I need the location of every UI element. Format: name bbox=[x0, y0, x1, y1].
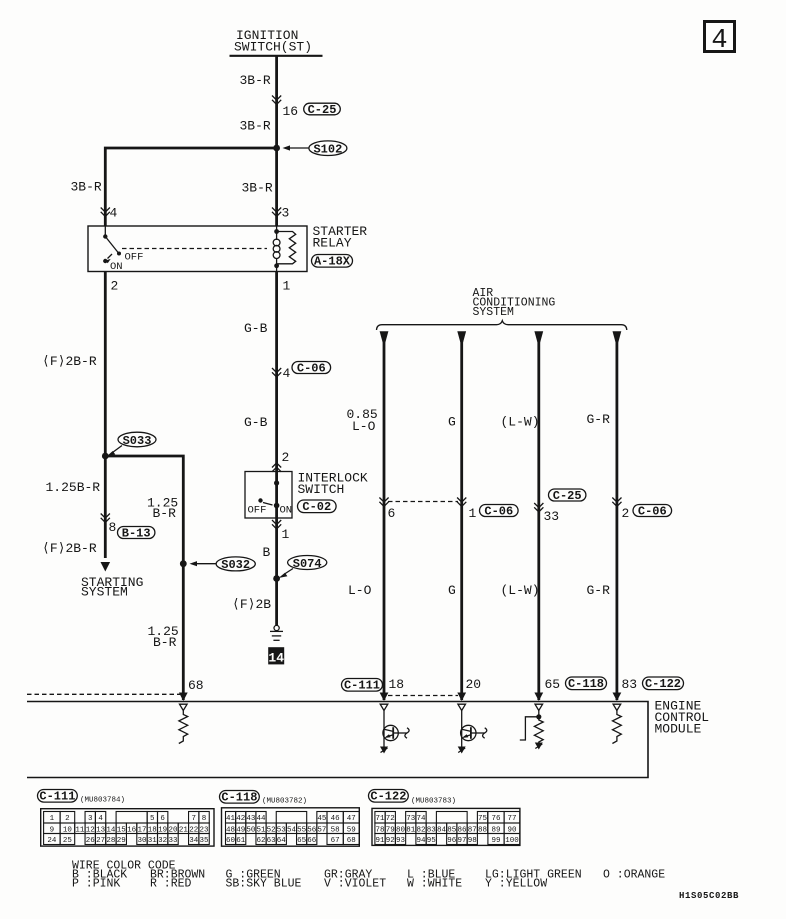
svg-text:25: 25 bbox=[63, 837, 73, 845]
connector C-122 title bbox=[369, 790, 457, 806]
svg-text:MODULE: MODULE bbox=[655, 722, 702, 737]
svg-text:71: 71 bbox=[376, 815, 386, 823]
svg-text:B-13: B-13 bbox=[122, 526, 151, 540]
svg-text:97: 97 bbox=[458, 837, 467, 845]
svg-text:C-02: C-02 bbox=[302, 500, 331, 514]
AC wire 4 bbox=[616, 336, 619, 700]
svg-text:S032: S032 bbox=[221, 558, 250, 572]
ECM transistor Q1 bbox=[380, 711, 409, 754]
connector C-06 bbox=[633, 504, 672, 518]
relay ON contact bbox=[103, 254, 112, 263]
svg-text:5: 5 bbox=[150, 815, 155, 823]
svg-text:65: 65 bbox=[545, 677, 561, 692]
connector C-25 bbox=[304, 103, 341, 117]
svg-text:S033: S033 bbox=[123, 434, 152, 448]
label 1.25 B-R bbox=[147, 496, 178, 522]
svg-text:L-O: L-O bbox=[348, 583, 372, 598]
relay switch contact top bbox=[103, 226, 107, 239]
svg-text:11: 11 bbox=[75, 827, 85, 835]
wire relay pin2 down to S033 bbox=[104, 272, 107, 457]
ECM pin 65 node bbox=[520, 711, 542, 741]
svg-text:C-06: C-06 bbox=[484, 504, 513, 518]
svg-text:28: 28 bbox=[106, 837, 115, 845]
svg-text:61: 61 bbox=[236, 837, 246, 845]
svg-text:(MU803784): (MU803784) bbox=[80, 797, 125, 805]
svg-text:(L-W): (L-W) bbox=[501, 583, 540, 598]
label INTERLOCK SWITCH bbox=[298, 471, 368, 498]
svg-text:18: 18 bbox=[389, 677, 405, 692]
connector C-118 title bbox=[220, 791, 308, 806]
svg-text:S074: S074 bbox=[293, 557, 322, 571]
svg-text:RELAY: RELAY bbox=[313, 236, 352, 251]
svg-text:16: 16 bbox=[283, 104, 299, 119]
svg-text:54: 54 bbox=[287, 827, 297, 835]
chevron into relay pin3 bbox=[272, 208, 281, 217]
svg-text:OFF: OFF bbox=[248, 505, 267, 517]
svg-text:60: 60 bbox=[226, 837, 236, 845]
svg-text:84: 84 bbox=[437, 827, 447, 835]
svg-text:45: 45 bbox=[317, 815, 327, 823]
svg-text:V :VIOLET: V :VIOLET bbox=[324, 878, 386, 891]
connector A-18X bbox=[312, 255, 353, 269]
svg-text:24: 24 bbox=[47, 837, 57, 845]
svg-text:8: 8 bbox=[202, 815, 207, 823]
svg-text:26: 26 bbox=[86, 837, 96, 845]
node AIR CONDITIONING SYSTEM bbox=[473, 287, 556, 319]
interlock ON contact bbox=[274, 503, 280, 509]
splice S074 bbox=[279, 556, 327, 579]
wire relay pin1 down to C-06 bbox=[275, 272, 278, 472]
svg-text:33: 33 bbox=[544, 509, 560, 524]
svg-text:16: 16 bbox=[127, 827, 137, 835]
svg-text:G: G bbox=[448, 415, 456, 430]
svg-text:3B-R: 3B-R bbox=[71, 180, 102, 195]
chevron into relay pin4 bbox=[101, 208, 110, 217]
svg-text:4: 4 bbox=[711, 26, 727, 56]
svg-text:46: 46 bbox=[331, 815, 341, 823]
svg-text:W :WHITE: W :WHITE bbox=[407, 878, 462, 891]
relay switch lever bbox=[105, 237, 121, 256]
wire arrowhead pin 83 bbox=[613, 693, 622, 702]
ECM pin 65 input triangle bbox=[535, 704, 543, 710]
svg-text:50: 50 bbox=[246, 827, 256, 835]
svg-text:47: 47 bbox=[347, 815, 356, 823]
svg-text:B: B bbox=[263, 545, 271, 560]
AC wire 1 bbox=[383, 336, 386, 700]
svg-text:Y :YELLOW: Y :YELLOW bbox=[485, 878, 547, 891]
svg-text:L-O: L-O bbox=[352, 419, 376, 434]
connector C-122 bbox=[643, 677, 684, 691]
label 0.85 L-O bbox=[347, 407, 378, 434]
svg-text:⟨F⟩2B-R: ⟨F⟩2B-R bbox=[42, 541, 97, 556]
svg-text:O :ORANGE: O :ORANGE bbox=[603, 869, 665, 882]
wire S033 branch right bbox=[105, 456, 183, 564]
AC wire 2 arrow bbox=[457, 331, 466, 342]
svg-text:ON: ON bbox=[280, 505, 293, 517]
svg-text:21: 21 bbox=[179, 827, 189, 835]
svg-text:3B-R: 3B-R bbox=[242, 181, 273, 196]
dashed line left of pin 68 bbox=[27, 693, 180, 695]
wire arrowhead pin 65 bbox=[534, 693, 543, 702]
svg-text:100: 100 bbox=[505, 837, 519, 845]
svg-text:2: 2 bbox=[111, 279, 119, 294]
page number box 4 bbox=[705, 22, 735, 57]
connector C-06 bbox=[292, 361, 331, 375]
chevron wire2 C-06 bbox=[457, 498, 466, 507]
svg-text:A-18X: A-18X bbox=[314, 255, 351, 269]
connector C-02 bbox=[298, 500, 337, 514]
AC wire 3 bbox=[537, 336, 540, 700]
interlock top contact bbox=[274, 480, 279, 485]
svg-text:4: 4 bbox=[283, 366, 291, 381]
connector C-06 bbox=[480, 504, 519, 518]
connector C-111 pinout grid bbox=[41, 809, 214, 846]
wire arrowhead pin 18 bbox=[380, 693, 389, 702]
ECM pin 18 input triangle bbox=[380, 704, 388, 710]
svg-text:4: 4 bbox=[98, 815, 103, 823]
svg-text:34: 34 bbox=[189, 837, 199, 845]
svg-text:68: 68 bbox=[347, 837, 356, 845]
connector C-118 bbox=[566, 677, 607, 691]
svg-text:C-118: C-118 bbox=[221, 791, 257, 805]
node IGNITION SWITCH(ST) bbox=[230, 28, 323, 56]
svg-text:29: 29 bbox=[117, 837, 126, 845]
ECM transistor Q2 bbox=[458, 711, 487, 754]
dashed link wire1 wire2 bbox=[388, 501, 458, 503]
svg-text:32: 32 bbox=[158, 837, 167, 845]
svg-text:31: 31 bbox=[148, 837, 158, 845]
svg-text:88: 88 bbox=[478, 827, 487, 835]
svg-text:98: 98 bbox=[468, 837, 477, 845]
svg-text:99: 99 bbox=[491, 837, 500, 845]
junction S102 dot bbox=[273, 145, 280, 152]
svg-text:C-122: C-122 bbox=[370, 790, 406, 804]
svg-text:2: 2 bbox=[622, 506, 630, 521]
wire junction down to relay pin3 bbox=[275, 148, 278, 226]
svg-text:3: 3 bbox=[88, 815, 93, 823]
svg-text:SB:SKY BLUE: SB:SKY BLUE bbox=[226, 878, 302, 891]
wire arrowhead pin 20 bbox=[457, 693, 466, 702]
relay coil drive dashed link bbox=[122, 248, 267, 250]
svg-text:94: 94 bbox=[417, 837, 427, 845]
svg-text:(L-W): (L-W) bbox=[501, 415, 540, 430]
svg-text:2: 2 bbox=[65, 815, 70, 823]
wire ignition to C-25 bbox=[275, 56, 278, 148]
junction S033 dot bbox=[102, 453, 109, 460]
svg-text:92: 92 bbox=[386, 837, 395, 845]
svg-text:R :RED: R :RED bbox=[150, 878, 192, 891]
svg-text:20: 20 bbox=[466, 677, 482, 692]
svg-text:6: 6 bbox=[388, 506, 396, 521]
svg-text:7: 7 bbox=[191, 815, 196, 823]
svg-text:C-06: C-06 bbox=[638, 504, 667, 518]
label ENGINE CONTROL MODULE bbox=[655, 699, 710, 737]
AC wire 3 arrow bbox=[534, 331, 543, 342]
svg-text:42: 42 bbox=[236, 815, 245, 823]
connector chevron C-06 bbox=[272, 368, 281, 377]
ECM pin 83 resistor bbox=[612, 711, 621, 744]
svg-text:S102: S102 bbox=[313, 143, 342, 157]
splice S032 bbox=[190, 557, 256, 572]
dashed line pins 18-20 bbox=[388, 695, 458, 697]
svg-text:C-111: C-111 bbox=[344, 679, 380, 693]
chevron wire4 C-06 bbox=[612, 498, 621, 507]
svg-text:C-25: C-25 bbox=[308, 103, 337, 117]
AC wire 1 arrow bbox=[380, 331, 389, 342]
ECM pin 68 resistor bbox=[179, 711, 188, 744]
junction S074 dot bbox=[273, 575, 280, 582]
svg-text:3B-R: 3B-R bbox=[240, 119, 271, 134]
svg-text:1: 1 bbox=[282, 527, 290, 542]
svg-text:G: G bbox=[448, 583, 456, 598]
wire arrowhead pin 68 bbox=[179, 693, 188, 702]
svg-text:OFF: OFF bbox=[125, 252, 144, 264]
connector chevron C-25 bbox=[272, 96, 281, 105]
svg-text:H1S05C02BB: H1S05C02BB bbox=[679, 891, 739, 901]
AC system bracket bbox=[377, 321, 627, 330]
wire interlock down to ground bbox=[275, 518, 278, 626]
svg-text:67: 67 bbox=[331, 837, 340, 845]
chevron wire3 C-25 bbox=[534, 503, 543, 512]
wire junction to left branch bbox=[105, 148, 276, 226]
svg-text:43: 43 bbox=[246, 815, 256, 823]
svg-text:1: 1 bbox=[50, 815, 55, 823]
svg-text:76: 76 bbox=[491, 815, 501, 823]
svg-text:74: 74 bbox=[417, 815, 427, 823]
svg-text:⟨F⟩2B-R: ⟨F⟩2B-R bbox=[42, 354, 97, 369]
svg-text:73: 73 bbox=[406, 815, 416, 823]
svg-text:2: 2 bbox=[282, 450, 290, 465]
svg-text:3: 3 bbox=[282, 206, 290, 221]
relay coil bbox=[273, 226, 280, 272]
junction S032 dot bbox=[180, 560, 187, 567]
interlock OFF contact and lever bbox=[258, 498, 272, 505]
svg-text:68: 68 bbox=[188, 678, 204, 693]
svg-text:75: 75 bbox=[478, 815, 488, 823]
svg-text:G-R: G-R bbox=[587, 412, 611, 427]
ECM pin 65 resistor to ground bbox=[534, 718, 543, 750]
connector C-25 bbox=[549, 489, 586, 503]
svg-text:63: 63 bbox=[267, 837, 277, 845]
svg-text:44: 44 bbox=[257, 815, 267, 823]
svg-text:P :PINK: P :PINK bbox=[72, 878, 120, 891]
svg-text:4: 4 bbox=[110, 206, 118, 221]
svg-text:SYSTEM: SYSTEM bbox=[81, 585, 128, 600]
svg-text:SWITCH: SWITCH bbox=[298, 482, 345, 497]
svg-text:91: 91 bbox=[376, 837, 386, 845]
svg-text:(MU803782): (MU803782) bbox=[262, 798, 307, 806]
connector B-13 bbox=[118, 526, 155, 540]
svg-text:B-R: B-R bbox=[153, 506, 177, 521]
wire color code legend bbox=[72, 860, 665, 891]
svg-text:1: 1 bbox=[469, 506, 477, 521]
svg-text:C-06: C-06 bbox=[297, 361, 326, 375]
svg-text:77: 77 bbox=[507, 815, 516, 823]
svg-text:83: 83 bbox=[622, 677, 638, 692]
svg-text:62: 62 bbox=[257, 837, 266, 845]
svg-text:14: 14 bbox=[268, 651, 284, 666]
ground 14 bbox=[270, 625, 283, 640]
connector C-122 pinout grid bbox=[372, 808, 520, 845]
svg-text:SYSTEM: SYSTEM bbox=[473, 306, 515, 319]
svg-text:33: 33 bbox=[169, 837, 179, 845]
svg-text:G-B: G-B bbox=[244, 321, 268, 336]
svg-text:1.25B-R: 1.25B-R bbox=[46, 480, 101, 495]
svg-text:B-R: B-R bbox=[153, 635, 177, 650]
ECM pin 83 input triangle bbox=[613, 704, 621, 710]
svg-text:C-25: C-25 bbox=[553, 489, 582, 503]
ECM box bbox=[27, 702, 648, 778]
svg-text:G-R: G-R bbox=[587, 583, 611, 598]
chevron below interlock bbox=[272, 520, 281, 529]
ECM pin 20 input triangle bbox=[458, 704, 466, 710]
interlock wire through box bbox=[275, 472, 278, 519]
interlock switch C-02 box bbox=[245, 472, 292, 519]
svg-text:SWITCH(ST): SWITCH(ST) bbox=[234, 40, 312, 55]
svg-text:65: 65 bbox=[297, 837, 307, 845]
connector C-111 bbox=[342, 679, 383, 693]
svg-text:(MU803783): (MU803783) bbox=[411, 798, 456, 806]
svg-text:C-122: C-122 bbox=[645, 677, 681, 691]
svg-text:⟨F⟩2B: ⟨F⟩2B bbox=[232, 597, 271, 612]
svg-text:8: 8 bbox=[109, 520, 117, 535]
connector C-111 title bbox=[38, 790, 126, 805]
svg-text:95: 95 bbox=[427, 837, 437, 845]
relay A-18X box bbox=[88, 226, 307, 272]
svg-text:1: 1 bbox=[283, 279, 291, 294]
node STARTING SYSTEM bbox=[81, 575, 143, 600]
svg-text:3B-R: 3B-R bbox=[240, 73, 271, 88]
relay resistor parallel bbox=[277, 232, 296, 264]
ground id 14 black box bbox=[268, 647, 284, 665]
svg-text:ON: ON bbox=[110, 261, 123, 273]
AC wire 2 bbox=[460, 336, 463, 700]
svg-text:C-111: C-111 bbox=[39, 790, 75, 804]
AC wire 4 arrow bbox=[613, 331, 622, 342]
splice S033 bbox=[107, 432, 157, 456]
svg-text:41: 41 bbox=[226, 815, 236, 823]
svg-text:66: 66 bbox=[307, 837, 317, 845]
wire S032 down to pin 68 bbox=[182, 564, 185, 700]
arrow to starting system bbox=[101, 562, 111, 572]
svg-text:72: 72 bbox=[386, 815, 395, 823]
splice S102 bbox=[283, 141, 347, 157]
svg-text:6: 6 bbox=[160, 815, 165, 823]
svg-text:C-118: C-118 bbox=[568, 677, 604, 691]
chevron up into interlock bbox=[272, 463, 281, 472]
connector chevron B-13 bbox=[101, 514, 110, 523]
svg-text:G-B: G-B bbox=[244, 415, 268, 430]
svg-text:30: 30 bbox=[137, 837, 147, 845]
ECM pin 68 input triangle bbox=[180, 704, 188, 710]
svg-text:93: 93 bbox=[396, 837, 406, 845]
svg-text:27: 27 bbox=[96, 837, 105, 845]
wire S033 down to B-13 bbox=[104, 456, 107, 558]
svg-text:81: 81 bbox=[406, 827, 416, 835]
label 1.25 B-R lower bbox=[148, 624, 179, 650]
svg-text:96: 96 bbox=[447, 837, 457, 845]
label STARTER RELAY bbox=[313, 224, 368, 251]
svg-text:35: 35 bbox=[200, 837, 210, 845]
connector C-118 pinout grid bbox=[222, 808, 360, 846]
svg-text:64: 64 bbox=[277, 837, 287, 845]
svg-text:57: 57 bbox=[317, 827, 326, 835]
chevron wire1 C-111 bbox=[379, 498, 388, 507]
